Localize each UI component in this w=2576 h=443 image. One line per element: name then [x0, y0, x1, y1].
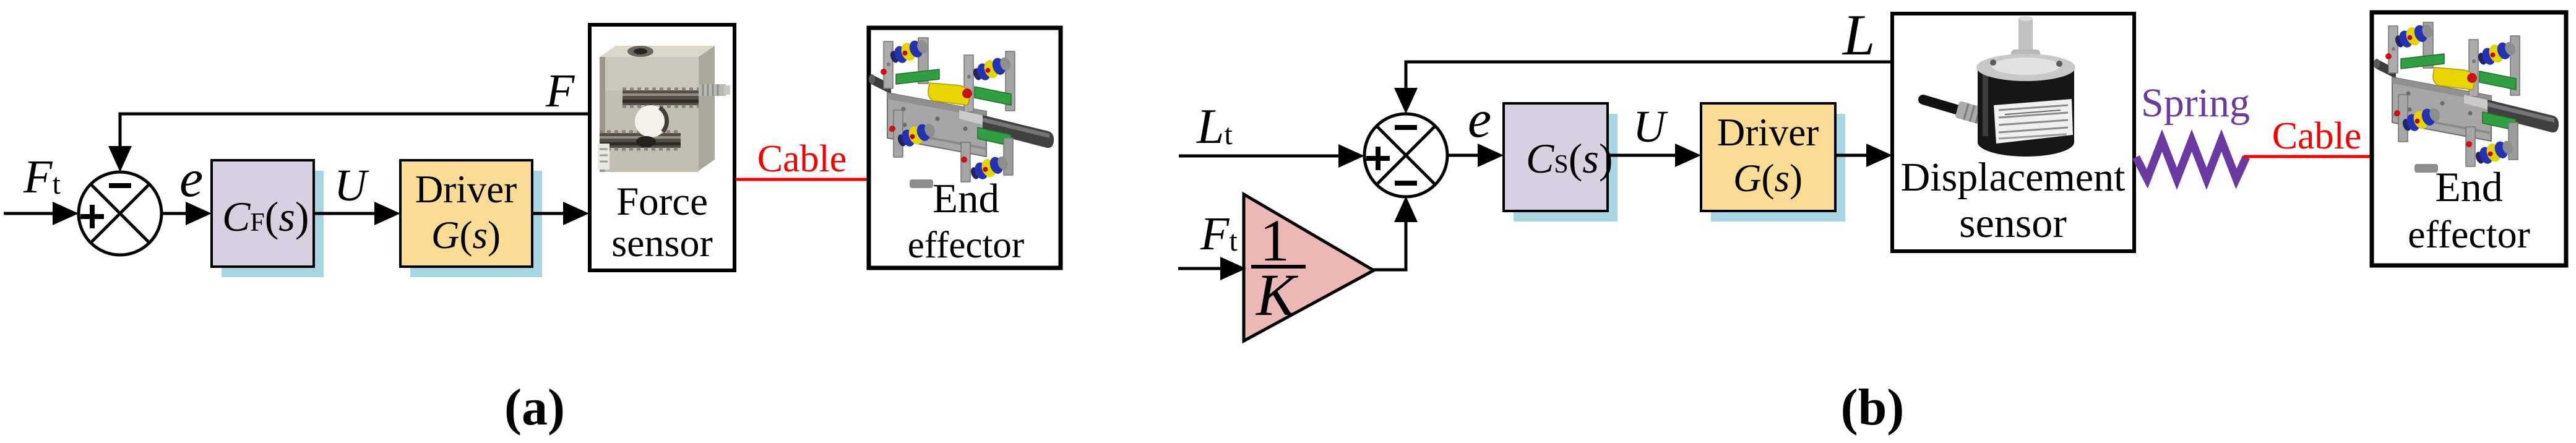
- load cell upper slot (opens right): [622, 89, 699, 106]
- wire: Ft into gain block (b): [1178, 257, 1246, 280]
- svg-text:K: K: [1255, 262, 1299, 328]
- svg-text:Cable: Cable: [2272, 115, 2362, 157]
- force sensor block (a): [590, 25, 734, 270]
- wire: input Ft into summing junction (a): [4, 202, 79, 225]
- svg-text:F: F: [545, 65, 575, 117]
- svg-text:(a): (a): [504, 379, 565, 436]
- end effector block (a): [869, 28, 1061, 268]
- end effector photo (a): [869, 37, 1054, 188]
- load cell top face: [600, 46, 715, 57]
- svg-text:End: End: [2435, 163, 2503, 210]
- load cell threaded rod: [699, 84, 726, 96]
- svg-text:e: e: [179, 148, 203, 208]
- gain block 1/K: [1244, 194, 1374, 341]
- svg-text:sensor: sensor: [611, 221, 713, 265]
- svg-text:G(s): G(s): [1733, 157, 1803, 200]
- svg-text:Displacement: Displacement: [1901, 155, 2126, 200]
- wire e: summing junction to CS(s) (b): [1447, 144, 1504, 167]
- end effector block (b): [2372, 12, 2566, 265]
- load cell center hole: [635, 105, 667, 137]
- wire U: CF(s) to Driver (a): [314, 202, 400, 225]
- load cell right face: [699, 46, 715, 171]
- wire: feedback F from force sensor to summing junction (a): [108, 114, 589, 172]
- wire: Driver to Force sensor (a): [532, 202, 589, 225]
- cable wire (a) red: [736, 178, 868, 181]
- summing junction (b): [1364, 114, 1447, 197]
- svg-text:e: e: [1468, 89, 1491, 148]
- encoder top flange: [1976, 54, 2075, 81]
- svg-text:Driver: Driver: [415, 168, 517, 211]
- svg-text:(b): (b): [1841, 379, 1905, 436]
- displacement sensor photo: rotary encoder: [1923, 16, 2075, 157]
- cable wire (b) red: [2244, 155, 2371, 158]
- svg-text:U: U: [334, 160, 369, 210]
- svg-text:U: U: [1633, 101, 1668, 152]
- summing junction (a): [79, 172, 162, 255]
- svg-text:effector: effector: [2408, 212, 2530, 256]
- displacement sensor block (b): [1892, 14, 2134, 251]
- wire: Driver to Displacement sensor (b): [1835, 144, 1892, 167]
- encoder body: [1978, 68, 2074, 157]
- load cell lower slot (opens left): [600, 132, 681, 149]
- spring symbol (b) purple: [2136, 140, 2246, 179]
- wire U: CS(s) to Driver (b): [1608, 144, 1701, 167]
- load cell top screw: [627, 46, 653, 57]
- load cell front face: [600, 57, 699, 172]
- svg-text:CS(s): CS(s): [1526, 135, 1613, 182]
- force sensor photo: S-type load cell: [598, 46, 730, 172]
- encoder shaft collar: [2011, 49, 2040, 64]
- driver block G(s) (a): [400, 160, 542, 277]
- svg-text:G(s): G(s): [431, 213, 501, 257]
- wire: feedback L from displacement sensor to summing junction (b): [1394, 62, 1892, 114]
- encoder cable: [1923, 100, 1975, 115]
- svg-text:Force: Force: [616, 179, 708, 224]
- svg-text:effector: effector: [908, 225, 1025, 266]
- encoder shaft: [2018, 19, 2033, 53]
- svg-text:End: End: [933, 176, 999, 222]
- load cell side label: [598, 144, 610, 170]
- wire e: summing junction to CF(s) (a): [162, 202, 212, 225]
- svg-text:L: L: [1842, 3, 1875, 67]
- controller block CF(s): [212, 160, 324, 277]
- svg-text:Spring: Spring: [2141, 80, 2250, 126]
- load cell lower slot screw: [636, 136, 656, 147]
- wire: gain block to summing junction bottom (b): [1373, 196, 1418, 270]
- wire: input Lt into summing junction (b): [1179, 144, 1364, 168]
- svg-text:CF(s): CF(s): [222, 193, 309, 240]
- driver block G(s) (b): [1701, 103, 1845, 222]
- svg-text:Cable: Cable: [757, 138, 847, 180]
- encoder cable connector nut: [1955, 101, 1993, 127]
- end effector photo (b): [2374, 21, 2559, 173]
- controller block CS(s): [1504, 103, 1618, 222]
- svg-text:Driver: Driver: [1717, 111, 1819, 154]
- encoder front label: [1994, 99, 2073, 144]
- svg-text:sensor: sensor: [1959, 199, 2067, 246]
